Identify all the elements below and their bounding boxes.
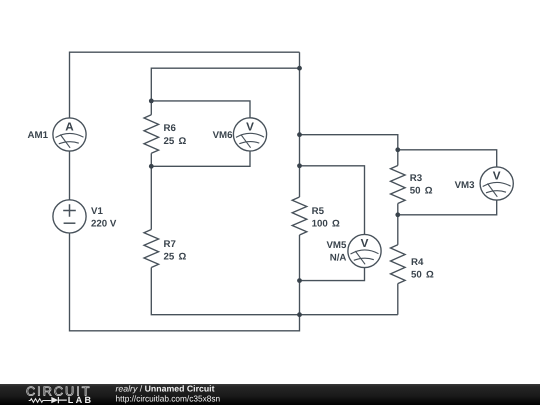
node dot trunk/R6 feed	[297, 66, 302, 71]
wire AM1 top to top rail to trunk top	[70, 52, 300, 118]
wire R7 bottom to mid rail	[151, 268, 397, 315]
voltmeter VM5 body	[348, 234, 381, 267]
VM6 gauge arcs	[236, 133, 264, 137]
wire trunk to VM5 top	[300, 166, 365, 235]
svg-text:R7: R7	[164, 239, 176, 250]
voltmeter VM3 body	[480, 167, 513, 200]
svg-text:LAB: LAB	[68, 395, 92, 405]
wire VM6 bottom link	[151, 151, 250, 166]
CircuitLab logo diode	[51, 397, 58, 403]
voltmeter VM6 body	[233, 118, 266, 151]
resistor R4	[391, 245, 406, 284]
VM5 gauge arcs	[351, 250, 379, 254]
wire trunk to R3 branch	[300, 135, 398, 166]
ammeter AM1 body	[53, 118, 86, 151]
wire trunk lower / bottom rail to V1	[70, 233, 300, 331]
VM3 gauge arcs	[483, 182, 511, 186]
AM1 gauge arcs	[56, 133, 84, 137]
resistor R7	[144, 230, 159, 268]
svg-text:R6: R6	[164, 123, 177, 134]
wire R6 feed from trunk	[151, 68, 299, 101]
node dot trunk/R3 branch	[297, 132, 302, 137]
svg-text:100 Ω: 100 Ω	[312, 219, 340, 230]
wire VM5 bottom to trunk	[300, 268, 365, 281]
svg-text:A: A	[65, 120, 74, 133]
svg-text:VM3: VM3	[455, 180, 476, 191]
svg-text:R4: R4	[411, 257, 424, 268]
svg-text:V: V	[361, 237, 369, 250]
VM3 needle	[488, 184, 498, 197]
node dot trunk/mid rail	[297, 312, 302, 317]
resistor R5	[292, 197, 307, 235]
CircuitLab logo resistor-diode glyph	[29, 399, 52, 403]
svg-text:AM1: AM1	[28, 130, 49, 141]
svg-text:50 Ω: 50 Ω	[411, 270, 434, 281]
wire R6 bottom stub	[150, 153, 152, 166]
svg-text:R3: R3	[410, 173, 423, 184]
wire R3 bottom to node	[397, 204, 399, 215]
wire R4 bottom to mid rail	[397, 284, 399, 315]
node dot R6 bottom	[149, 164, 154, 169]
svg-text:V: V	[493, 169, 501, 182]
svg-text:50 Ω: 50 Ω	[410, 185, 433, 196]
wire trunk upper (down to R5 top)	[299, 52, 301, 197]
voltage source V1 body	[53, 200, 86, 233]
node dot R3 top / VM3	[395, 147, 400, 152]
node dot trunk/VM5 bottom	[297, 278, 302, 283]
VM5 needle	[355, 251, 365, 264]
V1 minus sign	[64, 222, 76, 224]
svg-text:VM5: VM5	[326, 240, 347, 251]
V1 plus sign	[63, 204, 76, 217]
svg-text:V: V	[246, 120, 254, 133]
wire VM3 bottom link	[398, 200, 497, 215]
wire VM6 top link	[151, 101, 250, 118]
wire node to R4	[397, 215, 399, 245]
svg-text:VM6: VM6	[213, 130, 234, 141]
svg-text:R5: R5	[312, 206, 325, 217]
wire R6 bottom to R7	[150, 166, 152, 229]
node dot R6 top	[149, 99, 154, 104]
svg-text:http://circuitlab.com/c35x8sn: http://circuitlab.com/c35x8sn	[116, 394, 221, 404]
VM6 needle	[241, 134, 251, 147]
resistor R3	[391, 166, 406, 204]
wire AM1 to V1	[69, 151, 71, 200]
wire VM3 top link	[398, 150, 497, 167]
AM1 needle	[60, 135, 70, 148]
svg-text:V1: V1	[91, 206, 103, 217]
svg-text:25 Ω: 25 Ω	[164, 252, 187, 263]
svg-text:220 V: 220 V	[91, 219, 117, 230]
resistor R6	[144, 115, 159, 154]
svg-text:N/A: N/A	[330, 252, 347, 263]
wire R6 top stub	[150, 101, 152, 115]
node dot R3 bottom / VM3	[395, 212, 400, 217]
svg-text:realry / Unnamed Circuit: realry / Unnamed Circuit	[116, 384, 215, 394]
svg-text:25 Ω: 25 Ω	[164, 136, 187, 147]
node dot trunk/VM5 branch	[297, 163, 302, 168]
